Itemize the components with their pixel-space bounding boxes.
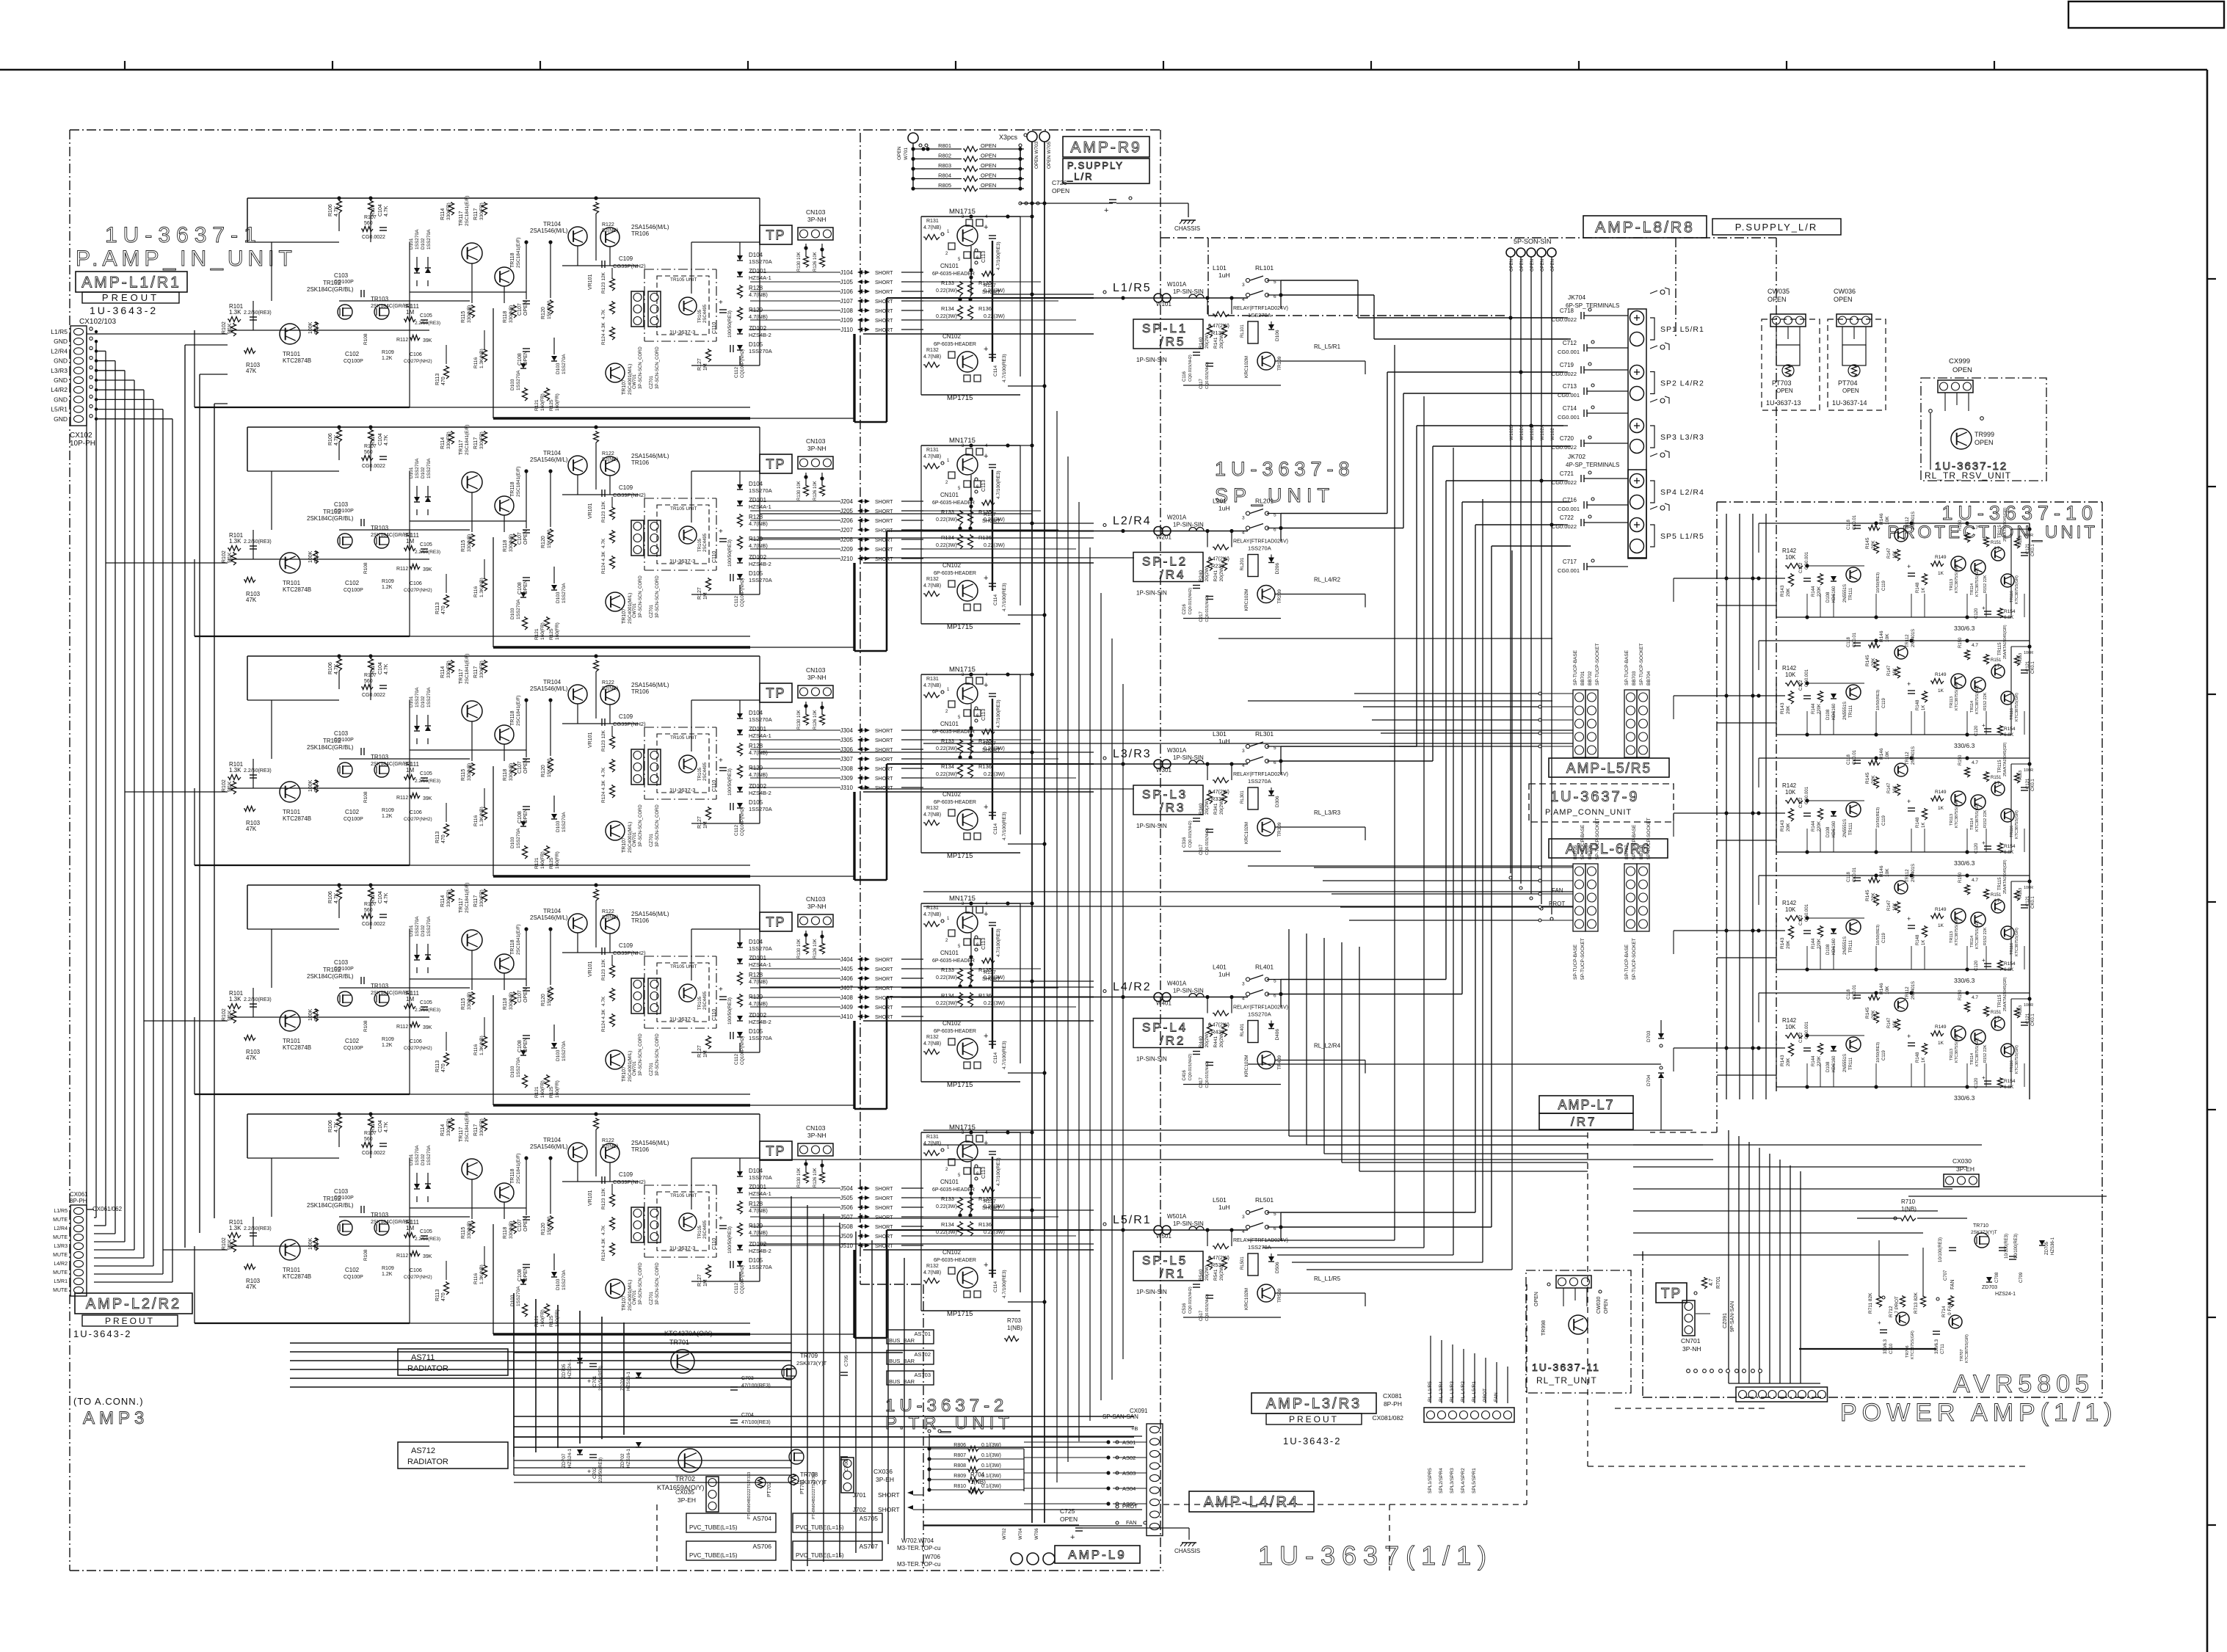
svg-text:0.22(3W): 0.22(3W) bbox=[936, 288, 957, 294]
svg-text:J702: J702 bbox=[853, 1506, 867, 1513]
svg-text:W102: W102 bbox=[1550, 428, 1555, 440]
svg-text:1SS270A: 1SS270A bbox=[562, 1270, 567, 1290]
svg-text:560: 560 bbox=[364, 1137, 373, 1142]
svg-text:R125: R125 bbox=[549, 628, 554, 640]
svg-text:OPEN: OPEN bbox=[1952, 366, 1972, 374]
svg-text:J510: J510 bbox=[840, 1242, 854, 1249]
svg-text:RL_L1/R5: RL_L1/R5 bbox=[1314, 1276, 1341, 1282]
svg-text:CZ701: CZ701 bbox=[650, 375, 654, 389]
svg-text:R802: R802 bbox=[938, 153, 951, 159]
svg-text:AMP-L4/R4: AMP-L4/R4 bbox=[1204, 1494, 1299, 1510]
svg-text:AMPL-6/R6: AMPL-6/R6 bbox=[1566, 842, 1651, 857]
svg-text:330(FR): 330(FR) bbox=[446, 889, 451, 907]
svg-text:100R: 100R bbox=[2024, 651, 2033, 655]
svg-text:R143: R143 bbox=[1780, 702, 1785, 714]
svg-text:1U-3637-3: 1U-3637-3 bbox=[669, 787, 695, 793]
svg-text:R147: R147 bbox=[1887, 1017, 1892, 1028]
svg-text:RL401: RL401 bbox=[1255, 964, 1274, 971]
svg-text:CQ27P(NH2): CQ27P(NH2) bbox=[404, 817, 432, 822]
svg-text:2SK184C(GR/BL): 2SK184C(GR/BL) bbox=[307, 1202, 354, 1209]
svg-text:R113: R113 bbox=[435, 1060, 440, 1072]
svg-text:R110: R110 bbox=[371, 663, 376, 674]
svg-text:C110: C110 bbox=[712, 780, 717, 792]
svg-text:5P-TUCP-SOCKET: 5P-TUCP-SOCKET bbox=[1595, 818, 1600, 859]
svg-text:RL_TR_RSV_UNIT: RL_TR_RSV_UNIT bbox=[1925, 470, 2011, 481]
svg-text:R808: R808 bbox=[953, 1463, 966, 1469]
svg-text:82(NB): 82(NB) bbox=[602, 457, 618, 462]
svg-text:C516: C516 bbox=[1182, 1303, 1187, 1314]
svg-text:TR112: TR112 bbox=[1906, 752, 1910, 765]
svg-text:MUTE: MUTE bbox=[53, 1288, 68, 1293]
svg-text:4.7/100(RE3): 4.7/100(RE3) bbox=[1002, 583, 1007, 611]
svg-text:CG0.001: CG0.001 bbox=[1558, 414, 1580, 421]
svg-text:4.7(NB): 4.7(NB) bbox=[923, 225, 941, 230]
svg-text:CG0.001: CG0.001 bbox=[1558, 349, 1580, 355]
svg-text:TR707: TR707 bbox=[1960, 1349, 1964, 1361]
svg-text:J108: J108 bbox=[840, 308, 854, 314]
svg-text:W101A: W101A bbox=[1167, 281, 1187, 288]
svg-text:TR105 UNIT: TR105 UNIT bbox=[670, 506, 697, 512]
svg-text:2N5551S: 2N5551S bbox=[1843, 819, 1848, 837]
svg-text:R123 12K: R123 12K bbox=[601, 1187, 606, 1209]
svg-text:KTC2874B: KTC2874B bbox=[283, 1273, 311, 1280]
svg-text:PVC_TUBE(L=15): PVC_TUBE(L=15) bbox=[689, 1552, 738, 1559]
svg-text:1(NB): 1(NB) bbox=[1007, 1325, 1022, 1331]
svg-text:R124 4.3K: R124 4.3K bbox=[601, 780, 606, 803]
svg-text:1.3K: 1.3K bbox=[229, 767, 241, 774]
svg-text:82(NB): 82(NB) bbox=[602, 1144, 618, 1149]
svg-text:PT703: PT703 bbox=[1772, 379, 1792, 387]
svg-text:330(NB): 330(NB) bbox=[509, 534, 514, 552]
svg-text:TR105 UNIT: TR105 UNIT bbox=[670, 277, 697, 283]
svg-text:R154: R154 bbox=[2004, 727, 2016, 732]
svg-text:6P-SP_TERMINALS: 6P-SP_TERMINALS bbox=[1566, 302, 1619, 309]
svg-text:1M: 1M bbox=[406, 538, 414, 545]
svg-text:CQ0.015(NH2): CQ0.015(NH2) bbox=[1188, 354, 1193, 382]
svg-text:100R: 100R bbox=[2024, 1003, 2033, 1008]
svg-text:SP1 L5/R1: SP1 L5/R1 bbox=[1660, 325, 1704, 334]
svg-text:100K: 100K bbox=[308, 321, 313, 334]
svg-text:ZD101: ZD101 bbox=[749, 726, 767, 732]
svg-text:3: 3 bbox=[1242, 1215, 1245, 1220]
svg-text:POWER AMP(1/1): POWER AMP(1/1) bbox=[1840, 1399, 2118, 1427]
svg-text:4.7: 4.7 bbox=[1972, 643, 1978, 648]
svg-text:3P-NH: 3P-NH bbox=[807, 903, 827, 910]
svg-text:R340: R340 bbox=[1199, 803, 1204, 815]
svg-text:ZD102: ZD102 bbox=[749, 554, 767, 561]
svg-text:R144: R144 bbox=[1812, 1055, 1816, 1066]
svg-text:R143: R143 bbox=[1780, 1055, 1785, 1066]
svg-text:TR115: TR115 bbox=[1998, 642, 2002, 655]
svg-text:10/50(RE3): 10/50(RE3) bbox=[1876, 807, 1881, 828]
svg-text:330(NB): 330(NB) bbox=[509, 992, 514, 1010]
svg-text:SP-TUCP-BASE: SP-TUCP-BASE bbox=[1624, 649, 1630, 685]
svg-text:4.7(NB): 4.7(NB) bbox=[749, 542, 768, 549]
svg-text:220K: 220K bbox=[1817, 704, 1822, 714]
svg-text:RELAY(FTRF1AD024V): RELAY(FTRF1AD024V) bbox=[1233, 1005, 1288, 1011]
svg-text:100R: 100R bbox=[2024, 886, 2033, 890]
svg-text:J204: J204 bbox=[840, 498, 854, 505]
svg-text:C112: C112 bbox=[734, 367, 739, 378]
svg-text:1uH: 1uH bbox=[1218, 505, 1230, 512]
svg-text:16K: 16K bbox=[1893, 785, 1897, 793]
svg-text:R805: R805 bbox=[938, 182, 951, 189]
svg-text:KTC3875S(GR): KTC3875S(GR) bbox=[1975, 920, 1980, 949]
svg-text:R109: R109 bbox=[382, 350, 394, 355]
svg-text:TR103: TR103 bbox=[371, 1212, 389, 1218]
svg-text:D108: D108 bbox=[1826, 826, 1831, 837]
svg-text:20K: 20K bbox=[1786, 940, 1791, 949]
svg-text:CQ100P: CQ100P bbox=[334, 967, 354, 972]
svg-text:0.22(3W): 0.22(3W) bbox=[984, 1204, 1005, 1209]
svg-text:4.7(NB): 4.7(NB) bbox=[923, 454, 941, 459]
svg-text:2SC1841(E/F): 2SC1841(E/F) bbox=[516, 466, 521, 497]
svg-text:L3/R3: L3/R3 bbox=[1113, 748, 1152, 760]
svg-text:SPL4/SPR2: SPL4/SPR2 bbox=[1461, 1468, 1466, 1493]
svg-text:CX061: CX061 bbox=[70, 1191, 88, 1198]
svg-text:R153: R153 bbox=[2019, 536, 2023, 545]
svg-text:R128: R128 bbox=[749, 1201, 763, 1207]
svg-text:RL101: RL101 bbox=[1255, 264, 1274, 272]
svg-text:2SC1841(E/F): 2SC1841(E/F) bbox=[465, 653, 470, 684]
svg-text:R102: R102 bbox=[222, 779, 227, 792]
svg-text:TR107: TR107 bbox=[622, 1066, 627, 1082]
svg-text:10/100(RE3): 10/100(RE3) bbox=[2005, 1234, 2009, 1259]
svg-text:10/100(RE3): 10/100(RE3) bbox=[2014, 1234, 2019, 1259]
svg-text:5P-TUCP-SOCKET: 5P-TUCP-SOCKET bbox=[1646, 818, 1652, 859]
svg-text:R136: R136 bbox=[978, 992, 992, 999]
svg-text:20K: 20K bbox=[1786, 1058, 1791, 1066]
svg-text:KTC3875S(GR): KTC3875S(GR) bbox=[2015, 1045, 2019, 1074]
svg-text:330(FR): 330(FR) bbox=[479, 661, 484, 678]
svg-text:J209: J209 bbox=[840, 546, 854, 553]
svg-text:47/100(RE3): 47/100(RE3) bbox=[741, 1420, 771, 1425]
svg-text:L4/R2: L4/R2 bbox=[54, 1262, 68, 1267]
svg-text:SHORT: SHORT bbox=[875, 1187, 893, 1192]
svg-text:2.2/50(RE3): 2.2/50(RE3) bbox=[415, 1008, 440, 1013]
svg-text:1SS270A: 1SS270A bbox=[1248, 545, 1271, 552]
svg-text:R134: R134 bbox=[941, 305, 954, 312]
svg-text:C103: C103 bbox=[334, 501, 349, 508]
svg-text:160(FR): 160(FR) bbox=[555, 851, 560, 869]
svg-text:560: 560 bbox=[364, 450, 373, 455]
svg-text:+: + bbox=[719, 299, 723, 307]
svg-text:R117: R117 bbox=[473, 666, 479, 678]
svg-text:ZD102: ZD102 bbox=[749, 325, 767, 332]
svg-text:RL301: RL301 bbox=[1240, 790, 1245, 804]
svg-text:OPEN: OPEN bbox=[981, 182, 996, 189]
svg-text:6P-6035-HEADER: 6P-6035-HEADER bbox=[932, 1187, 975, 1193]
svg-text:9P-SAN-SAN: 9P-SAN-SAN bbox=[1730, 1301, 1735, 1332]
svg-text:D103: D103 bbox=[556, 820, 561, 832]
svg-text:2SA1546(M/L): 2SA1546(M/L) bbox=[631, 1140, 669, 1146]
svg-text:R118: R118 bbox=[503, 1227, 508, 1239]
svg-text:R133: R133 bbox=[941, 509, 954, 515]
svg-text:2N5401S: 2N5401S bbox=[1911, 864, 1916, 882]
svg-text:PREOUT: PREOUT bbox=[105, 1316, 155, 1326]
svg-text:TR118: TR118 bbox=[510, 939, 515, 955]
svg-text:470: 470 bbox=[441, 834, 446, 843]
svg-text:+: + bbox=[984, 452, 988, 461]
svg-text:R148: R148 bbox=[1916, 817, 1920, 828]
svg-text:PVC_TUBE(L=15): PVC_TUBE(L=15) bbox=[796, 1524, 844, 1531]
svg-text:R126 10K: R126 10K bbox=[813, 252, 818, 272]
svg-text:FAN: FAN bbox=[1126, 1519, 1137, 1526]
svg-text:R114: R114 bbox=[440, 208, 446, 220]
svg-text:CZ701: CZ701 bbox=[650, 604, 654, 618]
svg-text:KTC3875S(GR): KTC3875S(GR) bbox=[1965, 1334, 1969, 1363]
svg-text:BUS_BAR: BUS_BAR bbox=[889, 1358, 915, 1364]
svg-text:J409: J409 bbox=[840, 1004, 854, 1011]
svg-text:4.7K: 4.7K bbox=[601, 767, 606, 777]
svg-text:1U-3637-9: 1U-3637-9 bbox=[1550, 789, 1640, 805]
svg-text:1SS270A: 1SS270A bbox=[1248, 778, 1271, 785]
svg-text:C105: C105 bbox=[420, 542, 432, 547]
svg-text:OPEN: OPEN bbox=[1842, 387, 1859, 394]
svg-text:PREOUT: PREOUT bbox=[102, 292, 159, 303]
svg-text:R121: R121 bbox=[534, 1086, 540, 1098]
svg-text:4.7/100(RE3): 4.7/100(RE3) bbox=[1002, 354, 1007, 382]
svg-text:1M: 1M bbox=[703, 363, 708, 371]
svg-text:2SC1841(E/F): 2SC1841(E/F) bbox=[516, 237, 521, 268]
svg-text:R120: R120 bbox=[541, 765, 546, 777]
svg-text:R115: R115 bbox=[461, 540, 466, 552]
svg-text:SHORT: SHORT bbox=[875, 500, 893, 505]
svg-text:20(2W): 20(2W) bbox=[1205, 1265, 1210, 1281]
svg-text:+: + bbox=[1070, 1533, 1075, 1542]
svg-text:R123 12K: R123 12K bbox=[601, 729, 606, 752]
svg-text:1SS270A: 1SS270A bbox=[749, 348, 772, 354]
svg-text:1K: 1K bbox=[1922, 1058, 1926, 1063]
svg-text:4.7K: 4.7K bbox=[384, 434, 389, 445]
svg-text:1SS270A: 1SS270A bbox=[516, 370, 521, 390]
svg-text:R132: R132 bbox=[926, 1264, 939, 1269]
svg-text:CG0.0022: CG0.0022 bbox=[362, 922, 385, 927]
svg-text:R703: R703 bbox=[1007, 1317, 1022, 1324]
svg-text:330/6.3: 330/6.3 bbox=[1954, 625, 1975, 632]
svg-text:CN103: CN103 bbox=[806, 895, 826, 903]
svg-text:R152 22K: R152 22K bbox=[1983, 1044, 1988, 1063]
svg-text:/R5: /R5 bbox=[1160, 335, 1185, 349]
svg-text:C122: C122 bbox=[1799, 1032, 1803, 1043]
svg-text:TR106: TR106 bbox=[631, 230, 650, 237]
svg-text:39K: 39K bbox=[423, 1254, 432, 1259]
svg-text:C113: C113 bbox=[981, 1167, 987, 1179]
svg-text:C114: C114 bbox=[993, 1281, 998, 1292]
svg-text:TR114: TR114 bbox=[1970, 583, 1974, 595]
svg-text:CHASSIS: CHASSIS bbox=[1174, 1548, 1200, 1554]
svg-text:1.2K: 1.2K bbox=[382, 356, 393, 361]
svg-text:470: 470 bbox=[441, 376, 446, 385]
svg-text:C517: C517 bbox=[1199, 1310, 1204, 1321]
svg-text:AS703: AS703 bbox=[914, 1372, 931, 1378]
svg-text:4.7(NB): 4.7(NB) bbox=[749, 771, 768, 778]
svg-text:P.AMP_IN_UNIT: P.AMP_IN_UNIT bbox=[76, 247, 297, 271]
svg-text:R148: R148 bbox=[1916, 934, 1920, 945]
svg-text:C109: C109 bbox=[619, 255, 633, 262]
svg-text:R141: R141 bbox=[1213, 337, 1218, 349]
svg-text:330(FR): 330(FR) bbox=[446, 1118, 451, 1136]
svg-text:X3pcs: X3pcs bbox=[999, 134, 1018, 141]
svg-text:C102: C102 bbox=[345, 1038, 360, 1044]
svg-text:C712: C712 bbox=[1563, 340, 1577, 346]
svg-text:22K: 22K bbox=[1871, 540, 1876, 549]
svg-text:1U-3643-2: 1U-3643-2 bbox=[90, 305, 158, 316]
svg-text:4.7(NB): 4.7(NB) bbox=[749, 1229, 768, 1236]
svg-text:0.22(3W): 0.22(3W) bbox=[984, 772, 1005, 777]
svg-text:330/6.3: 330/6.3 bbox=[1954, 1094, 1975, 1102]
svg-text:0.1/(3W): 0.1/(3W) bbox=[981, 1453, 1001, 1458]
svg-text:CW036: CW036 bbox=[1834, 288, 1856, 295]
svg-text:3P-SCN-SCN_CORD: 3P-SCN-SCN_CORD bbox=[655, 346, 660, 389]
svg-text:C416: C416 bbox=[1182, 1069, 1187, 1080]
svg-text:CN101: CN101 bbox=[940, 1179, 959, 1185]
svg-text:CX102/103: CX102/103 bbox=[79, 318, 116, 326]
svg-text:39K: 39K bbox=[423, 567, 432, 572]
svg-text:2SC4495: 2SC4495 bbox=[703, 304, 708, 323]
svg-text:220K: 220K bbox=[1817, 821, 1822, 832]
svg-text:SHORT: SHORT bbox=[875, 299, 893, 305]
svg-text:1.2K: 1.2K bbox=[382, 1043, 393, 1048]
svg-text:R132: R132 bbox=[926, 348, 939, 353]
svg-text:C217: C217 bbox=[1199, 611, 1204, 622]
svg-text:R115: R115 bbox=[461, 998, 466, 1010]
svg-text:CN103: CN103 bbox=[806, 208, 826, 216]
svg-text:R123 12K: R123 12K bbox=[601, 501, 606, 523]
svg-text:R701: R701 bbox=[1716, 1276, 1721, 1289]
svg-text:R126 10K: R126 10K bbox=[813, 1168, 818, 1187]
svg-text:25A/KTA1504S(GR): 25A/KTA1504S(GR) bbox=[2003, 625, 2008, 659]
svg-text:47K: 47K bbox=[246, 826, 257, 832]
svg-text:2N5551S: 2N5551S bbox=[1843, 584, 1848, 603]
svg-text:2N5551S: 2N5551S bbox=[1843, 1054, 1848, 1072]
svg-text:4.7(NB): 4.7(NB) bbox=[749, 1000, 768, 1007]
svg-text:47K: 47K bbox=[246, 368, 257, 374]
svg-text:W401A: W401A bbox=[1167, 980, 1187, 987]
svg-text:R122: R122 bbox=[602, 680, 614, 685]
svg-text:CX081: CX081 bbox=[1383, 1392, 1402, 1400]
svg-text:CZ701: CZ701 bbox=[650, 1291, 654, 1305]
svg-text:FAN: FAN bbox=[1950, 1279, 1955, 1289]
svg-text:4: 4 bbox=[1242, 1229, 1245, 1234]
svg-text:W702.W704: W702.W704 bbox=[901, 1538, 934, 1544]
svg-text:CQ100P(NH2): CQ100P(NH2) bbox=[741, 349, 745, 378]
svg-text:R115: R115 bbox=[461, 311, 466, 323]
svg-text:D108: D108 bbox=[1826, 944, 1831, 955]
svg-text:1SS270A: 1SS270A bbox=[562, 354, 567, 374]
svg-text:TR710: TR710 bbox=[1973, 1223, 1988, 1229]
svg-text:CQ100P: CQ100P bbox=[334, 1196, 354, 1201]
svg-text:PT701: PT701 bbox=[800, 1479, 805, 1494]
svg-text:C102: C102 bbox=[345, 351, 360, 357]
svg-text:KTC2874B: KTC2874B bbox=[283, 357, 311, 364]
svg-text:82(NB): 82(NB) bbox=[602, 915, 618, 920]
svg-text:SP3 L3/R3: SP3 L3/R3 bbox=[1660, 433, 1704, 442]
svg-text:100/50(RE3): 100/50(RE3) bbox=[727, 539, 733, 567]
svg-text:3P-EH: 3P-EH bbox=[876, 1476, 894, 1483]
svg-text:0.22(3W): 0.22(3W) bbox=[936, 1230, 957, 1235]
svg-text:PTH9M04BD222TS2F333: PTH9M04BD222TS2F333 bbox=[747, 1472, 752, 1519]
svg-text:BB701: BB701 bbox=[1580, 671, 1585, 685]
svg-text:AMP-L2/R2: AMP-L2/R2 bbox=[86, 1296, 181, 1312]
svg-text:1P-SIN-SIN: 1P-SIN-SIN bbox=[1136, 357, 1167, 363]
svg-text:R440: R440 bbox=[1199, 1036, 1204, 1048]
svg-text:1SS270A: 1SS270A bbox=[749, 945, 772, 952]
svg-text:4.7(NB): 4.7(NB) bbox=[749, 520, 768, 527]
svg-text:2SC1841(E/F): 2SC1841(E/F) bbox=[516, 1153, 521, 1184]
svg-text:W706: W706 bbox=[1035, 1528, 1039, 1540]
svg-text:KRC102M: KRC102M bbox=[1244, 1288, 1249, 1310]
svg-text:KRC102M: KRC102M bbox=[1244, 589, 1249, 611]
svg-text:R116: R116 bbox=[473, 586, 479, 597]
svg-text:D104: D104 bbox=[749, 939, 763, 945]
svg-text:4.7/100(RE3): 4.7/100(RE3) bbox=[1002, 812, 1007, 840]
svg-text:J404: J404 bbox=[840, 956, 854, 963]
svg-text:330(NB): 330(NB) bbox=[509, 763, 514, 781]
svg-text:2N5401S: 2N5401S bbox=[1911, 512, 1916, 530]
svg-text:TR107: TR107 bbox=[622, 379, 627, 395]
svg-text:TR116: TR116 bbox=[2010, 1060, 2014, 1072]
svg-text:R122: R122 bbox=[602, 909, 614, 914]
svg-text:C725: C725 bbox=[1060, 1507, 1075, 1515]
svg-text:C122: C122 bbox=[1799, 680, 1803, 691]
svg-text:1U-3643-2: 1U-3643-2 bbox=[1283, 1436, 1341, 1447]
svg-text:6P-6035-HEADER: 6P-6035-HEADER bbox=[934, 1029, 976, 1034]
svg-text:HZS36-1: HZS36-1 bbox=[2051, 1237, 2055, 1255]
svg-text:10K: 10K bbox=[1785, 554, 1796, 561]
svg-text:CX999: CX999 bbox=[1949, 357, 1970, 365]
svg-text:2SK184C(GR/BL): 2SK184C(GR/BL) bbox=[307, 286, 354, 293]
svg-text:R130 10K: R130 10K bbox=[797, 1168, 802, 1187]
svg-text:R147: R147 bbox=[1887, 665, 1892, 676]
svg-text:C106: C106 bbox=[410, 1268, 422, 1273]
svg-text:1P-SIN-SIN: 1P-SIN-SIN bbox=[1136, 823, 1167, 829]
svg-text:SP-L4: SP-L4 bbox=[1142, 1021, 1188, 1035]
svg-text:100R: 100R bbox=[2024, 534, 2033, 538]
svg-text:C113: C113 bbox=[981, 480, 987, 492]
svg-text:1SS270A: 1SS270A bbox=[516, 599, 521, 619]
svg-text:R148: R148 bbox=[1916, 1052, 1920, 1063]
svg-text:330(FR): 330(FR) bbox=[446, 432, 451, 449]
svg-text:L1/R5: L1/R5 bbox=[1113, 282, 1152, 294]
svg-text:SHORT: SHORT bbox=[875, 767, 893, 772]
svg-text:R145: R145 bbox=[1865, 537, 1870, 549]
svg-text:+: + bbox=[984, 681, 988, 690]
svg-text:FAN: FAN bbox=[1552, 887, 1563, 894]
svg-text:R131: R131 bbox=[926, 448, 939, 453]
svg-text:VR101: VR101 bbox=[588, 274, 593, 290]
svg-text:M3-TER.TOP-cu: M3-TER.TOP-cu bbox=[897, 1561, 940, 1568]
svg-text:J109: J109 bbox=[840, 317, 854, 324]
svg-text:C713: C713 bbox=[1563, 383, 1577, 390]
svg-text:4.7(NB): 4.7(NB) bbox=[923, 1141, 941, 1146]
svg-text:RELAY(FTRF1AD024V): RELAY(FTRF1AD024V) bbox=[1233, 772, 1288, 777]
svg-text:R127: R127 bbox=[697, 358, 702, 371]
svg-text:4.7(NB): 4.7(NB) bbox=[749, 313, 768, 320]
svg-text:2SC4001(M/L): 2SC4001(M/L) bbox=[628, 822, 633, 853]
svg-text:25A/KTA1504S(GR): 25A/KTA1504S(GR) bbox=[2003, 742, 2008, 776]
svg-text:CHASSIS: CHASSIS bbox=[1174, 225, 1200, 232]
svg-text:KTC3875S(GR): KTC3875S(GR) bbox=[1955, 917, 1959, 945]
svg-text:J206: J206 bbox=[840, 517, 854, 524]
svg-text:MUTE: MUTE bbox=[53, 1270, 68, 1276]
svg-text:4.7K: 4.7K bbox=[601, 538, 606, 548]
svg-text:CX030: CX030 bbox=[1952, 1157, 1972, 1165]
svg-text:SHORT: SHORT bbox=[875, 328, 893, 333]
svg-text:OPEN: OPEN bbox=[1834, 296, 1853, 303]
svg-text:BB703: BB703 bbox=[1632, 671, 1637, 685]
svg-text:D106: D106 bbox=[1275, 330, 1280, 341]
